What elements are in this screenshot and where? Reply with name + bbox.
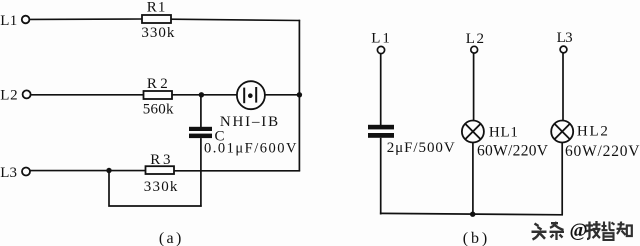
glyph zhi bbox=[617, 222, 632, 237]
lamp HL1 bbox=[462, 121, 484, 143]
terminal L2 bbox=[23, 90, 31, 98]
svg-text:HL2: HL2 bbox=[577, 124, 608, 140]
svg-text:60W/220V: 60W/220V bbox=[477, 143, 549, 160]
svg-text:330k: 330k bbox=[141, 25, 175, 41]
svg-text:L3: L3 bbox=[0, 165, 17, 181]
wire R3 to right rail bbox=[174, 170, 300, 172]
terminal L1 bbox=[22, 16, 30, 24]
wire bottom bus (b) bbox=[380, 213, 563, 214]
capacitor C1 bottom plate (b) bbox=[368, 133, 394, 138]
svg-text:NHI–IB: NHI–IB bbox=[220, 114, 278, 130]
svg-text:(a): (a) bbox=[159, 230, 181, 246]
svg-text:2μF/500V: 2μF/500V bbox=[387, 140, 455, 156]
svg-text:L2: L2 bbox=[466, 31, 484, 47]
svg-text:@: @ bbox=[570, 221, 588, 242]
glyph ji bbox=[585, 221, 601, 239]
capacitor C bottom plate bbox=[189, 134, 212, 139]
svg-text:L1: L1 bbox=[0, 13, 17, 29]
resistor R3 bbox=[146, 166, 175, 174]
svg-text:60W/220V: 60W/220V bbox=[565, 143, 640, 160]
wire R1 to right rail bbox=[171, 19, 300, 20]
capacitor C1 top plate (b) bbox=[368, 125, 394, 130]
neon lamp centre dot bbox=[248, 93, 253, 98]
neon lamp U1 circle bbox=[237, 81, 265, 109]
wire capacitor down to bus bbox=[380, 138, 382, 215]
svg-text:L2: L2 bbox=[0, 88, 17, 104]
wire L2 down to lamp HL1 bbox=[473, 53, 475, 120]
svg-text:0.01μF/600V: 0.01μF/600V bbox=[204, 140, 297, 156]
lamp HL2 bbox=[551, 121, 573, 143]
wire node B down and across to capacitor bottom bbox=[109, 171, 202, 207]
svg-text:330k: 330k bbox=[144, 179, 178, 195]
terminal L3 (b) bbox=[560, 46, 567, 53]
wire L1 down to capacitor bbox=[380, 54, 382, 126]
glyph tou bbox=[532, 224, 547, 240]
svg-text:560k: 560k bbox=[143, 101, 174, 117]
wire lamp HL2 down to bus bbox=[561, 143, 563, 215]
junction dot on bus bbox=[470, 212, 475, 217]
capacitor C top plate bbox=[189, 127, 212, 131]
wire capacitor C down bbox=[200, 138, 202, 207]
wire L3 down to lamp HL2 bbox=[562, 53, 564, 121]
terminal L3 bbox=[22, 168, 30, 176]
svg-text:(b): (b) bbox=[463, 230, 487, 246]
wire R2 to neon lamp bbox=[172, 94, 237, 96]
glyph tiao bbox=[550, 222, 565, 240]
watermark toutiao logo glyphs bbox=[532, 221, 632, 240]
svg-text:HL1: HL1 bbox=[489, 124, 518, 140]
neon lamp right electrode bbox=[255, 87, 257, 103]
svg-text:R1: R1 bbox=[147, 0, 166, 16]
junction dot on right rail bbox=[297, 92, 302, 97]
svg-text:L3: L3 bbox=[557, 30, 573, 46]
junction dot node A bbox=[199, 92, 204, 97]
terminal L2 (b) bbox=[471, 46, 478, 53]
junction dot node B bbox=[106, 168, 111, 173]
wire lamp HL1 down to bus bbox=[472, 143, 474, 215]
terminal L1 (b) bbox=[377, 46, 384, 53]
wire right rail bbox=[298, 20, 300, 172]
wire L2 to R2 bbox=[31, 94, 144, 96]
wire junction A down to capacitor C bbox=[200, 95, 202, 128]
resistor R2 bbox=[144, 91, 173, 99]
glyph jie bbox=[602, 222, 615, 241]
wire L1 to R1 bbox=[30, 18, 142, 20]
resistor R1 bbox=[142, 15, 171, 23]
neon lamp left electrode bbox=[243, 88, 245, 104]
wire L3 to R3 bbox=[31, 170, 146, 172]
wire neon lamp to right rail bbox=[265, 94, 300, 96]
